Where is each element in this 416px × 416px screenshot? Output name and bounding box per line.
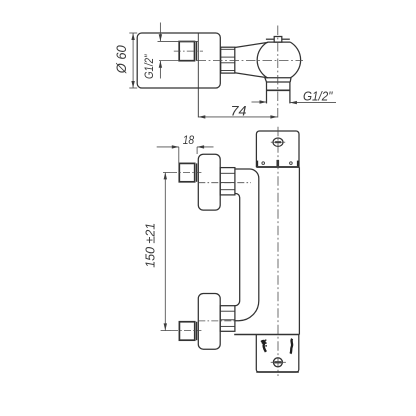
svg-text:G1/2": G1/2" — [142, 54, 156, 79]
svg-text:18: 18 — [183, 133, 195, 147]
svg-text:150 ±21: 150 ±21 — [144, 223, 158, 268]
svg-text:G1/2": G1/2" — [303, 88, 334, 103]
svg-text:Ø 60: Ø 60 — [114, 45, 129, 74]
svg-text:74: 74 — [231, 102, 247, 118]
